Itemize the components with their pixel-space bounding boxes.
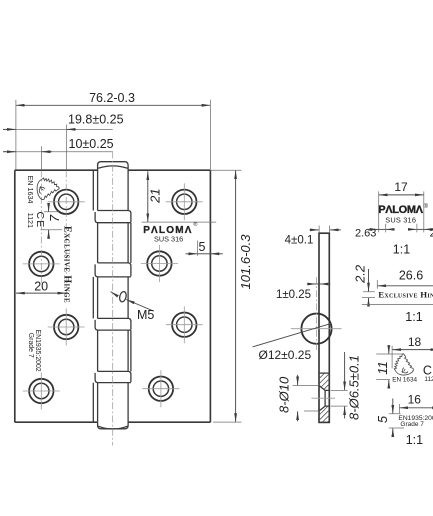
leaf flame icon: [37, 178, 59, 200]
detail 2: dim 26.6: [377, 268, 433, 288]
svg-text:4±0.1: 4±0.1: [285, 234, 314, 246]
logo top line: [142, 221, 217, 223]
svg-text:2.63: 2.63: [430, 227, 433, 239]
PALOMA logo front: [143, 221, 197, 236]
svg-text:101.6-0.3: 101.6-0.3: [238, 234, 253, 290]
dim Ø12±0.25 leader: [253, 323, 332, 347]
pin bottom cap: [98, 422, 129, 429]
hole R4: [149, 377, 173, 401]
right leaf inner edge: [130, 223, 132, 372]
svg-text:16: 16: [408, 393, 422, 407]
svg-text:Grade 7: Grade 7: [400, 421, 424, 428]
hole L4: [29, 379, 53, 403]
svg-text:76.2-0.3: 76.2-0.3: [89, 91, 135, 105]
knuckle 1 sides: [98, 171, 129, 211]
svg-text:21: 21: [147, 188, 162, 203]
dim 8-Ø10: [277, 375, 319, 421]
svg-text:1121: 1121: [424, 376, 433, 383]
section hatching: [263, 368, 387, 430]
front view outline left edge: [14, 170, 16, 422]
hinge centerline: [112, 152, 114, 446]
svg-text:1121: 1121: [26, 213, 35, 228]
hole R2: [147, 251, 171, 275]
hole L1: [54, 190, 78, 214]
dim 8-Ø6.5±0.1: [331, 352, 362, 420]
svg-text:5: 5: [199, 240, 206, 254]
svg-text:Ø12±0.25: Ø12±0.25: [259, 348, 312, 362]
dim 101.6-0.3: [211, 170, 253, 422]
dim 21: [147, 171, 162, 222]
svg-text:11: 11: [375, 361, 390, 375]
pin top cap: [98, 162, 129, 172]
knuckle circle (side): [301, 314, 331, 344]
washer band 4: [95, 373, 131, 383]
svg-text:PΛLOMΛ: PΛLOMΛ: [378, 204, 423, 216]
svg-text:18: 18: [408, 335, 422, 349]
left leaf inner edge: [92, 170, 94, 422]
svg-text:17: 17: [394, 180, 408, 194]
dim 4±0.1: [285, 226, 341, 247]
washer band 3: [95, 320, 131, 330]
svg-text:10±0.25: 10±0.25: [69, 137, 114, 151]
dim 7 (leaf logo band): [41, 203, 63, 239]
svg-text:26.6: 26.6: [399, 268, 423, 282]
svg-text:SUS 316: SUS 316: [385, 216, 416, 225]
side view strip: [319, 233, 329, 422]
side view inner line: [319, 372, 329, 374]
svg-text:1:1: 1:1: [406, 433, 423, 447]
svg-text:20: 20: [34, 280, 48, 294]
M5 hole oval: [119, 291, 128, 303]
dim 1±0.25: [276, 284, 330, 301]
dim 19.8±0.25: [3, 112, 124, 169]
front view top edge: [15, 169, 211, 171]
svg-text:7: 7: [47, 214, 62, 222]
detail 3: flame icon: [394, 354, 413, 375]
knuckle 2 sides: [98, 223, 129, 263]
circle vertical centerline: [315, 277, 317, 352]
svg-text:Exclusive Hinge: Exclusive Hinge: [62, 226, 73, 303]
hole crosshairs: [23, 183, 203, 409]
hole centerline (side, light): [312, 397, 336, 399]
svg-text:2.2: 2.2: [353, 264, 368, 284]
front view bottom edge: [15, 421, 211, 423]
knuckle 3 sides: [98, 277, 129, 319]
knuckle 4 sides: [98, 330, 129, 371]
detail 1: dim 2.63 left: [355, 224, 393, 240]
detail 2: dim 2.2: [353, 264, 375, 304]
hole column centerline x=66.2: [65, 171, 67, 299]
svg-text:CE: CE: [34, 212, 46, 229]
svg-text:EN1935:2002: EN1935:2002: [34, 330, 41, 372]
svg-text:5: 5: [375, 415, 390, 423]
svg-text:1:1: 1:1: [393, 243, 410, 257]
dim 76.2-0.3: [16, 91, 211, 170]
countersink profile: [319, 386, 329, 412]
svg-text:19.8±0.25: 19.8±0.25: [68, 112, 124, 126]
svg-text:EN 1634: EN 1634: [392, 376, 417, 383]
dim 5 (logo offset): [186, 240, 223, 256]
detail 4: dim 5: [375, 399, 404, 437]
dim 10±0.25: [3, 137, 114, 170]
circle horizontal centerline: [291, 328, 342, 330]
svg-text:8-Ø10: 8-Ø10: [277, 376, 292, 413]
hole R1: [172, 190, 196, 214]
knuckle 5 sides: [98, 383, 129, 423]
svg-text:EN 1634: EN 1634: [26, 176, 35, 204]
M5 leader: [126, 300, 154, 312]
front view outline right edge: [209, 170, 211, 422]
svg-text:Grade 7: Grade 7: [27, 333, 34, 358]
detail 1: dim 17: [379, 180, 424, 232]
svg-text:Exclusive Hinge: Exclusive Hinge: [378, 290, 433, 300]
hole L3: [54, 315, 78, 339]
hole L2: [29, 252, 53, 276]
detail 3: dim 11: [375, 346, 403, 388]
svg-text:8-Ø6.5±0.1: 8-Ø6.5±0.1: [347, 355, 362, 420]
svg-text:1:1: 1:1: [405, 310, 422, 324]
svg-text:SUS 316: SUS 316: [154, 234, 183, 243]
washer band 1: [95, 212, 131, 223]
detail 1: PALOMA logo: [378, 203, 428, 216]
svg-text:M5: M5: [137, 308, 154, 322]
svg-text:®: ®: [424, 203, 429, 210]
svg-text:®: ®: [193, 221, 197, 228]
M5 aux arrow: [111, 292, 117, 296]
svg-text:1±0.25: 1±0.25: [276, 289, 311, 301]
dim 20: [16, 280, 66, 294]
washer band 2: [95, 264, 131, 277]
detail 2: underline: [362, 304, 433, 306]
detail 1: dim 2.63 right (clipped): [410, 224, 433, 240]
hole column centerline x=41.3: [40, 171, 42, 286]
detail 4: dim 16: [399, 393, 433, 414]
detail 3: dim 18: [392, 335, 433, 369]
hole R3: [172, 313, 196, 337]
